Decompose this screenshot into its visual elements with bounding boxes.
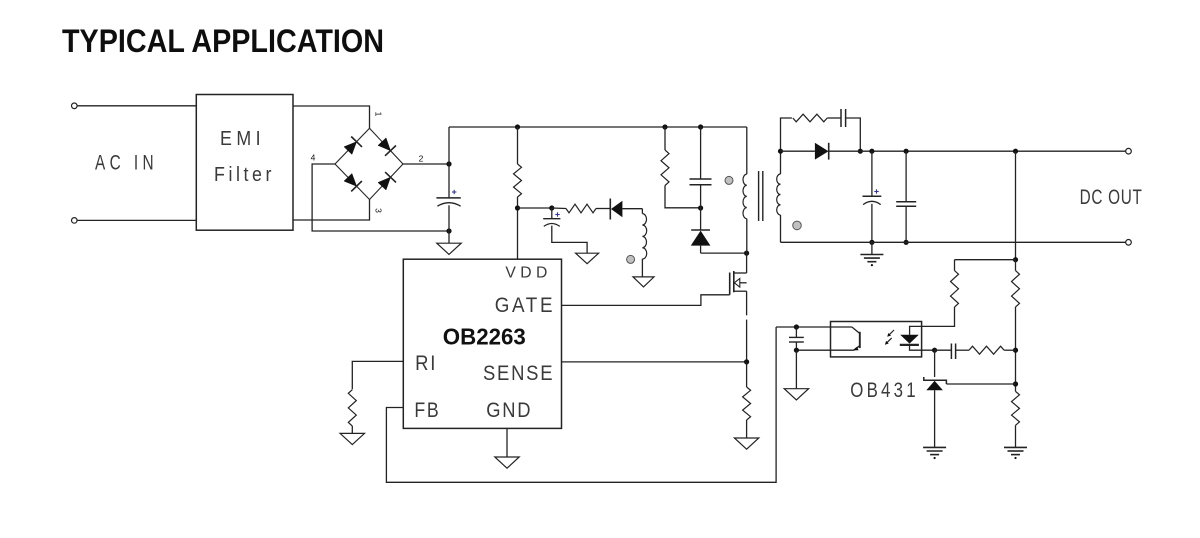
bridge rectifier BD1 xyxy=(335,128,403,199)
junction xyxy=(446,161,451,166)
wire xyxy=(351,426,353,433)
wire xyxy=(746,362,748,387)
resistor R6 xyxy=(793,114,827,122)
capacitor C3 xyxy=(690,179,712,185)
terminal DC- xyxy=(1126,240,1132,246)
phase dot xyxy=(725,176,733,184)
ground xyxy=(633,277,654,287)
wire xyxy=(293,106,370,128)
inductor L1 aux winding xyxy=(642,214,646,260)
transformer T1 secondary xyxy=(777,174,781,215)
wire xyxy=(449,126,747,128)
svg-text:1: 1 xyxy=(374,112,384,117)
wire GND xyxy=(506,428,508,457)
svg-text:3: 3 xyxy=(374,208,384,213)
optocoupler phototransistor xyxy=(776,327,860,350)
wire xyxy=(700,185,702,208)
junction xyxy=(904,240,909,245)
wire xyxy=(77,219,196,221)
ground xyxy=(576,253,599,264)
resistor R7 xyxy=(1012,271,1020,307)
transformer T1 primary xyxy=(743,174,747,219)
terminal AC line xyxy=(72,103,78,109)
wire xyxy=(746,320,748,362)
svg-text:Filter: Filter xyxy=(214,164,275,186)
transistor Q1 xyxy=(730,271,747,295)
bridge diode D1b xyxy=(378,138,396,156)
wire xyxy=(403,163,449,165)
junction xyxy=(794,324,799,329)
ground xyxy=(734,438,758,449)
label OB431 xyxy=(850,379,919,402)
bridge diode D1a xyxy=(344,137,362,155)
wire xyxy=(448,127,450,198)
wire xyxy=(596,208,610,210)
wire xyxy=(1015,151,1017,260)
junction xyxy=(698,205,703,210)
junction xyxy=(858,149,863,154)
diode D3 xyxy=(815,143,860,160)
svg-text:EMI: EMI xyxy=(220,128,265,150)
junction xyxy=(869,149,874,154)
wire xyxy=(905,206,907,242)
capacitor C8 xyxy=(951,344,955,360)
wire xyxy=(871,242,873,254)
diode D2 xyxy=(691,208,711,253)
wire xyxy=(641,209,643,214)
wire xyxy=(746,127,748,174)
wire xyxy=(448,205,450,243)
junction xyxy=(1013,381,1018,386)
resistor R4 xyxy=(743,387,751,420)
optocoupler LED D6 xyxy=(900,326,935,350)
wire xyxy=(871,204,873,243)
junction xyxy=(869,240,874,245)
ground xyxy=(437,243,461,254)
phase dot xyxy=(793,221,802,230)
svg-text:VDD: VDD xyxy=(505,265,551,282)
wire xyxy=(312,164,449,231)
wire xyxy=(641,259,643,277)
svg-text:OB431: OB431 xyxy=(850,379,919,402)
wire xyxy=(781,150,815,152)
junction xyxy=(1013,348,1018,353)
EMI filter block U5 xyxy=(196,95,293,231)
junction xyxy=(794,348,799,353)
ground xyxy=(860,255,883,267)
junction xyxy=(1013,257,1018,262)
resistor R1 xyxy=(514,164,522,197)
wire xyxy=(871,151,873,196)
transformer core xyxy=(759,171,763,221)
junction xyxy=(698,124,703,129)
ground xyxy=(495,457,519,468)
junction xyxy=(515,124,520,129)
resistor R3 xyxy=(661,150,669,186)
svg-text:OB2263: OB2263 xyxy=(443,324,526,350)
wire xyxy=(746,253,748,273)
svg-text:GND: GND xyxy=(486,399,532,422)
svg-text:SENSE: SENSE xyxy=(483,362,554,385)
wire GATE route xyxy=(562,295,730,306)
wire xyxy=(517,127,519,164)
capacitor C6 xyxy=(896,202,916,207)
wire SENSE xyxy=(562,361,747,363)
wire xyxy=(954,260,956,271)
svg-text:DC OUT: DC OUT xyxy=(1080,185,1143,209)
IC U1 OB2263 xyxy=(403,259,561,428)
ground xyxy=(784,389,808,400)
svg-text:FB: FB xyxy=(414,399,440,422)
wire xyxy=(664,127,666,150)
junction xyxy=(744,359,749,364)
shunt regulator U4 OB431 xyxy=(924,350,947,447)
pin label 1 xyxy=(374,112,384,117)
junction xyxy=(744,251,749,256)
bridge diode D1d xyxy=(378,172,396,190)
optocoupler U3 box xyxy=(831,322,922,357)
wire xyxy=(780,151,782,174)
resistor R10 xyxy=(1012,391,1020,425)
wire xyxy=(860,150,1125,152)
optocoupler light arrows xyxy=(885,330,894,345)
wire xyxy=(1015,260,1017,271)
capacitor C7 xyxy=(789,327,804,350)
junction xyxy=(778,149,783,154)
svg-text:GATE: GATE xyxy=(495,294,556,317)
wire xyxy=(552,226,587,254)
svg-text:4: 4 xyxy=(311,153,316,163)
title TYPICAL APPLICATION xyxy=(62,23,384,59)
label AC IN xyxy=(95,152,158,175)
svg-text:RI: RI xyxy=(415,352,437,375)
capacitor C2 xyxy=(543,208,560,226)
wire RI xyxy=(352,361,403,389)
wire xyxy=(846,118,861,151)
pin label 3 xyxy=(374,208,384,213)
resistor R9 xyxy=(969,346,1004,354)
junction xyxy=(549,205,554,210)
terminal AC neutral xyxy=(72,218,78,224)
wire xyxy=(700,127,702,179)
wire xyxy=(905,151,907,202)
wire xyxy=(746,219,748,253)
svg-text:AC IN: AC IN xyxy=(95,152,158,175)
wire xyxy=(701,252,747,254)
ground xyxy=(923,447,946,459)
svg-text:2: 2 xyxy=(419,154,424,164)
wire xyxy=(517,197,519,259)
wire xyxy=(1015,425,1017,447)
wire FB xyxy=(386,327,776,482)
junction xyxy=(932,348,937,353)
wire xyxy=(746,291,748,315)
resistor R8 xyxy=(951,271,959,307)
junction xyxy=(662,124,667,129)
wire xyxy=(518,207,552,209)
junction xyxy=(446,228,451,233)
capacitor C4 xyxy=(841,109,846,127)
wire xyxy=(1015,307,1017,391)
svg-text:TYPICAL APPLICATION: TYPICAL APPLICATION xyxy=(62,23,384,59)
wire xyxy=(781,118,792,151)
terminal DC+ xyxy=(1126,148,1132,154)
wire xyxy=(827,117,841,119)
wire REF xyxy=(946,383,1015,385)
wire xyxy=(935,349,952,351)
wire xyxy=(922,307,955,326)
ground xyxy=(340,433,364,444)
phase dot xyxy=(627,255,635,263)
wire xyxy=(795,350,797,389)
diode D5 xyxy=(610,199,642,220)
junction xyxy=(904,149,909,154)
wire xyxy=(955,259,1016,261)
pin label 4 xyxy=(311,153,316,163)
junction xyxy=(1013,149,1018,154)
wire xyxy=(780,215,782,242)
wire xyxy=(77,105,196,107)
resistor R2 xyxy=(566,204,596,213)
wire xyxy=(746,420,748,438)
wire xyxy=(665,186,701,208)
capacitor C1 xyxy=(436,190,460,206)
bridge diode D1c xyxy=(344,174,362,192)
wire xyxy=(956,349,969,351)
wire xyxy=(1004,349,1015,351)
capacitor C5 xyxy=(863,189,882,204)
wire xyxy=(781,241,1126,243)
junction xyxy=(515,205,520,210)
resistor R5 xyxy=(348,390,356,426)
ground xyxy=(1004,447,1027,459)
wire xyxy=(293,200,370,221)
label DC OUT xyxy=(1080,185,1143,209)
pin label 2 xyxy=(419,154,424,164)
wire xyxy=(552,207,566,210)
